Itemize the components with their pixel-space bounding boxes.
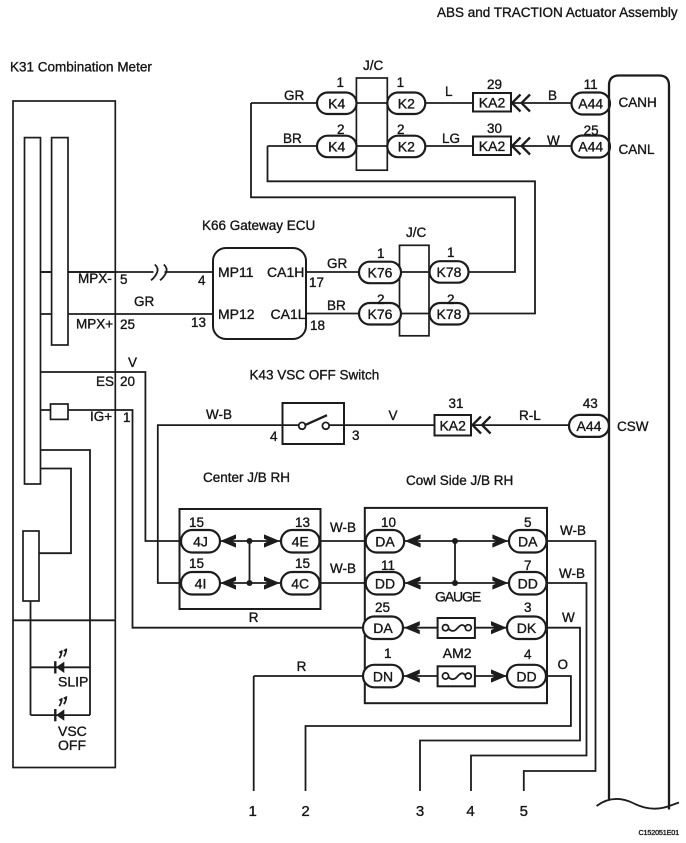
svg-text:J/C: J/C xyxy=(406,225,427,240)
svg-text:V: V xyxy=(389,408,398,423)
svg-text:DD: DD xyxy=(516,668,536,684)
svg-text:B: B xyxy=(548,88,557,103)
svg-text:2: 2 xyxy=(337,122,345,137)
svg-text:4E: 4E xyxy=(292,533,309,549)
svg-text:W: W xyxy=(547,133,560,148)
svg-text:DD: DD xyxy=(518,575,538,591)
svg-text:CA1H: CA1H xyxy=(267,264,304,280)
svg-text:Cowl Side J/B RH: Cowl Side J/B RH xyxy=(406,473,513,488)
svg-text:IG+: IG+ xyxy=(90,409,112,424)
svg-text:K78: K78 xyxy=(437,264,462,280)
svg-text:KA2: KA2 xyxy=(439,417,466,433)
svg-text:OFF: OFF xyxy=(58,737,86,753)
svg-text:5: 5 xyxy=(520,803,528,820)
svg-text:13: 13 xyxy=(295,515,310,530)
svg-text:GAUGE: GAUGE xyxy=(435,589,481,605)
svg-text:5: 5 xyxy=(120,272,128,287)
svg-text:A44: A44 xyxy=(578,96,603,112)
svg-text:25: 25 xyxy=(375,600,390,615)
svg-text:ABS and TRACTION Actuator Asse: ABS and TRACTION Actuator Assembly xyxy=(437,5,678,20)
svg-text:K76: K76 xyxy=(368,265,393,281)
svg-text:J/C: J/C xyxy=(363,58,384,73)
svg-text:15: 15 xyxy=(189,556,204,571)
svg-text:R: R xyxy=(297,659,307,674)
svg-text:11: 11 xyxy=(584,77,598,92)
svg-text:43: 43 xyxy=(583,396,598,411)
svg-text:5: 5 xyxy=(524,515,532,530)
svg-text:4J: 4J xyxy=(193,533,208,549)
svg-text:25: 25 xyxy=(584,123,599,138)
svg-text:KA2: KA2 xyxy=(479,138,506,154)
svg-text:ES: ES xyxy=(96,374,114,389)
svg-text:K4: K4 xyxy=(328,95,345,111)
svg-text:MP12: MP12 xyxy=(218,306,255,322)
svg-text:K78: K78 xyxy=(437,306,462,322)
svg-text:4I: 4I xyxy=(195,575,207,591)
svg-text:4: 4 xyxy=(466,803,474,820)
svg-text:4: 4 xyxy=(198,273,206,288)
svg-text:3: 3 xyxy=(352,428,360,443)
svg-text:4: 4 xyxy=(524,647,532,662)
svg-text:K66 Gateway ECU: K66 Gateway ECU xyxy=(202,218,315,233)
svg-text:DD: DD xyxy=(375,575,395,591)
svg-text:DA: DA xyxy=(375,533,395,549)
svg-text:W: W xyxy=(562,610,575,625)
svg-text:O: O xyxy=(558,657,569,672)
svg-text:K2: K2 xyxy=(398,139,415,155)
svg-text:7: 7 xyxy=(524,558,532,573)
svg-text:1: 1 xyxy=(384,646,392,661)
svg-text:R-L: R-L xyxy=(519,408,541,423)
svg-text:1: 1 xyxy=(397,75,405,90)
svg-text:10: 10 xyxy=(381,515,396,530)
svg-text:K43 VSC OFF Switch: K43 VSC OFF Switch xyxy=(250,368,380,383)
svg-text:BR: BR xyxy=(283,131,302,146)
svg-text:A44: A44 xyxy=(578,139,603,155)
svg-text:K76: K76 xyxy=(368,306,393,322)
svg-text:25: 25 xyxy=(120,317,135,332)
svg-text:DA: DA xyxy=(518,533,538,549)
svg-text:W-B: W-B xyxy=(330,520,356,535)
svg-text:3: 3 xyxy=(524,600,532,615)
svg-text:C152051E01: C152051E01 xyxy=(639,828,680,837)
svg-text:W-B: W-B xyxy=(560,523,586,538)
svg-text:1: 1 xyxy=(337,75,345,90)
svg-text:L: L xyxy=(445,84,453,99)
svg-text:SLIP: SLIP xyxy=(58,674,88,690)
svg-text:W-B: W-B xyxy=(559,566,585,581)
svg-text:4: 4 xyxy=(270,429,278,444)
svg-text:AM2: AM2 xyxy=(443,645,472,661)
svg-text:1: 1 xyxy=(249,803,257,820)
svg-text:1: 1 xyxy=(377,246,385,261)
svg-text:2: 2 xyxy=(447,292,455,307)
svg-text:KA2: KA2 xyxy=(479,94,506,110)
svg-text:LG: LG xyxy=(442,131,460,146)
svg-text:CSW: CSW xyxy=(617,419,649,434)
svg-text:11: 11 xyxy=(381,558,395,573)
svg-text:1: 1 xyxy=(447,245,455,260)
svg-text:30: 30 xyxy=(487,121,502,136)
svg-text:CANH: CANH xyxy=(619,95,657,110)
svg-text:2: 2 xyxy=(301,803,309,820)
svg-text:CANL: CANL xyxy=(619,142,656,157)
svg-text:17: 17 xyxy=(309,275,324,290)
svg-text:MPX+: MPX+ xyxy=(76,317,113,332)
svg-text:GR: GR xyxy=(284,88,305,103)
svg-text:CA1L: CA1L xyxy=(271,306,306,322)
svg-text:2: 2 xyxy=(397,122,405,137)
svg-text:K4: K4 xyxy=(328,139,345,155)
svg-text:BR: BR xyxy=(327,298,346,313)
svg-text:18: 18 xyxy=(310,318,325,333)
svg-text:2: 2 xyxy=(377,292,385,307)
svg-text:K31 Combination Meter: K31 Combination Meter xyxy=(10,60,152,75)
svg-text:DA: DA xyxy=(373,620,393,636)
svg-text:15: 15 xyxy=(295,556,310,571)
svg-text:13: 13 xyxy=(191,315,206,330)
svg-text:W-B: W-B xyxy=(206,407,232,422)
svg-text:GR: GR xyxy=(134,294,155,309)
svg-text:V: V xyxy=(128,355,137,370)
svg-text:20: 20 xyxy=(120,374,135,389)
svg-text:1: 1 xyxy=(123,410,131,425)
svg-text:3: 3 xyxy=(416,803,424,820)
svg-text:R: R xyxy=(249,610,259,625)
svg-text:MPX-: MPX- xyxy=(78,271,112,286)
svg-text:K2: K2 xyxy=(398,95,415,111)
svg-text:DN: DN xyxy=(373,668,393,684)
svg-text:DK: DK xyxy=(517,620,537,636)
svg-text:MP11: MP11 xyxy=(218,264,254,280)
svg-text:GR: GR xyxy=(327,256,348,271)
svg-text:4C: 4C xyxy=(291,575,309,591)
svg-text:A44: A44 xyxy=(577,418,602,434)
svg-text:29: 29 xyxy=(487,77,502,92)
svg-text:Center J/B RH: Center J/B RH xyxy=(203,470,290,485)
svg-text:15: 15 xyxy=(189,515,204,530)
svg-text:W-B: W-B xyxy=(330,561,356,576)
svg-text:31: 31 xyxy=(449,396,464,411)
